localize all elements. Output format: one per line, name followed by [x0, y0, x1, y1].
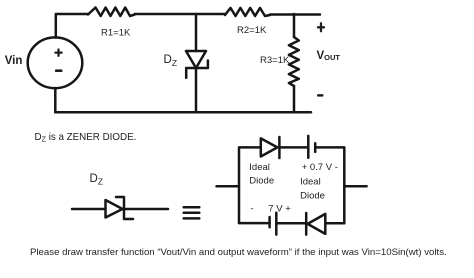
svg-text:Vin: Vin	[5, 55, 23, 67]
output plus sign	[318, 23, 324, 31]
ideal diode D1	[261, 138, 278, 156]
resistor R1	[88, 8, 135, 17]
battery 0.7V tall plate	[307, 136, 310, 158]
wire zener branch bottom	[195, 68, 198, 112]
voltage source Vin	[28, 37, 83, 88]
ideal diode D2 bar	[305, 213, 308, 235]
svg-text:7 V +: 7 V +	[268, 203, 291, 214]
battery 0.7V short plate	[314, 143, 317, 152]
svg-text:R2=1K: R2=1K	[237, 25, 267, 36]
wire right stub of equivalent circuit	[344, 185, 366, 188]
wire D2 to box corner	[325, 222, 344, 225]
wire source bottom	[54, 88, 57, 112]
svg-text:DZ is a ZENER DIODE.: DZ is a ZENER DIODE.	[35, 132, 137, 144]
zener bar	[186, 61, 208, 78]
battery 7V short plate	[268, 217, 271, 227]
wire top-right of box	[315, 147, 344, 223]
svg-text:DZ: DZ	[90, 173, 104, 187]
wire bottom	[55, 111, 311, 114]
source plus sign	[55, 50, 61, 56]
svg-text:R1=1K: R1=1K	[101, 27, 131, 38]
resistor R2	[225, 8, 270, 16]
wire battery 7V to D2	[276, 222, 306, 225]
wire left stub of equivalent circuit	[217, 185, 240, 188]
svg-text:Diode: Diode	[249, 176, 274, 187]
ideal diode D1 bar	[278, 137, 281, 158]
wire D1 to battery 0.7V	[279, 146, 308, 149]
svg-text:Ideal: Ideal	[300, 176, 321, 187]
svg-text:+ 0.7 V -: + 0.7 V -	[302, 162, 338, 173]
wire bottom-left of box	[239, 222, 270, 225]
svg-text:R3=1K: R3=1K	[260, 55, 290, 66]
svg-text:DZ: DZ	[164, 54, 178, 68]
equivalence sign	[184, 207, 200, 218]
svg-text:-: -	[251, 203, 254, 214]
wire left side of box	[239, 147, 261, 223]
ideal diode D2	[308, 214, 326, 234]
wire R1 to R2 through node at Dz	[135, 13, 225, 16]
zener diode symbol triangle	[106, 200, 123, 218]
svg-text:Please draw transfer function: Please draw transfer function “Vout/Vin …	[30, 247, 447, 258]
svg-text:Diode: Diode	[300, 191, 325, 202]
source minus sign	[56, 69, 61, 72]
zener diode Dz	[186, 51, 206, 68]
wire R2 to output terminal	[270, 13, 320, 16]
output minus sign	[318, 94, 322, 97]
wire R3 branch top	[293, 14, 296, 37]
svg-text:Ideal: Ideal	[249, 162, 270, 173]
zener diode symbol bar	[116, 197, 133, 219]
resistor R3	[289, 37, 299, 86]
battery 7V tall plate	[275, 213, 278, 235]
wire zener branch top	[195, 14, 198, 51]
wire R3 branch bottom	[293, 86, 296, 112]
svg-text:VOUT: VOUT	[317, 50, 341, 62]
wire zener symbol left lead	[72, 208, 106, 211]
wire top-left from source to R1	[56, 14, 88, 38]
wire zener symbol right lead	[124, 208, 168, 211]
